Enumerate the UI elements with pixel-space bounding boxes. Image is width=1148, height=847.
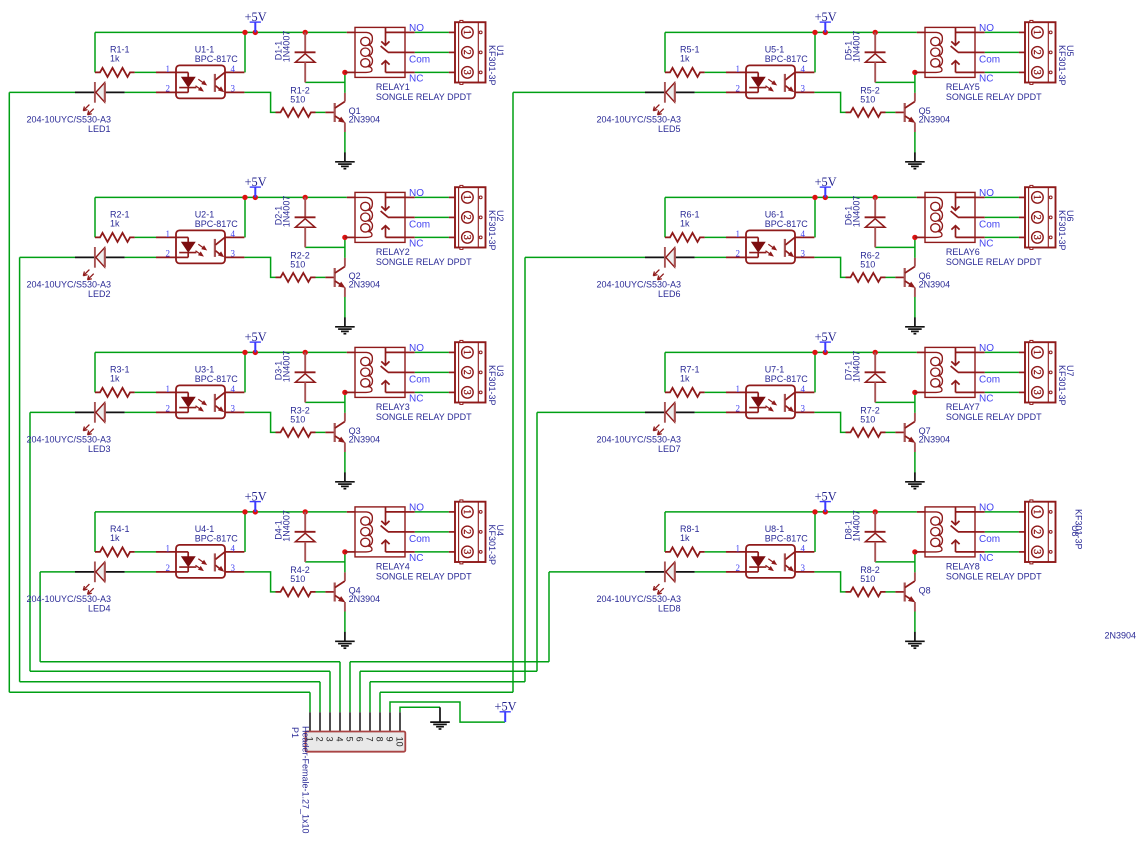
svg-text:LED6: LED6 [658,289,681,299]
svg-text:2N3904: 2N3904 [349,435,381,445]
diode D7-1 1N4007 [843,351,885,403]
wire RELAY7 NO to terminal pin 1 [985,351,1019,353]
wire LED7 cathode to header P1 pin 2 [360,412,645,712]
svg-text:2: 2 [1031,529,1042,534]
wire RELAY2 NC to terminal pin 3 [415,236,449,238]
svg-text:KF301-3P: KF301-3P [487,525,497,566]
wire RELAY6 NO to terminal pin 1 [985,196,1019,198]
connector U2 KF301-3P terminal block [449,185,505,250]
wire D6-1 anode to Q6 collector and relay coil [875,237,915,258]
svg-text:LED4: LED4 [88,603,111,613]
wire U1-1 pin 3 to R1-2 [244,92,275,112]
connector P1 Header-Female-1.27_1x10 [290,712,405,833]
svg-text:3: 3 [1031,390,1042,395]
wire +5V rail row 4 [95,512,347,552]
power +5V row 3 [245,330,267,352]
svg-text:1: 1 [736,229,741,239]
relay RELAY2 SONGLE DPDT [345,188,472,267]
wire Q6 emitter to ground [914,297,916,318]
svg-text:1: 1 [736,384,741,394]
svg-text:+5V: +5V [815,330,837,344]
wire U3-1 pin 4 to +5V rail [244,352,246,392]
svg-text:510: 510 [860,414,875,424]
wire R2-1 to U2-1 pin 1 [135,236,156,238]
svg-text:KF301-3P: KF301-3P [1057,45,1067,86]
svg-text:NC: NC [409,394,423,405]
svg-text:2: 2 [461,50,472,55]
wire D2-1 anode to Q2 collector and relay coil [305,237,345,258]
relay RELAY4 SONGLE DPDT [345,503,472,582]
svg-text:204-10UYC/S530-A3: 204-10UYC/S530-A3 [596,434,681,444]
wire +5V rail row 6 [665,197,917,237]
wire Q5 emitter to ground [914,132,916,153]
node relay coil / collector junction row 3 [342,390,347,395]
wire U6-1 pin 3 to R6-2 [814,257,845,277]
svg-text:KF301-3P: KF301-3P [487,210,497,251]
op-amp U8-1 optocoupler BPC-817C [726,524,814,578]
svg-text:5: 5 [344,737,354,742]
node +5V junction A row 6 [812,195,817,200]
svg-text:1k: 1k [110,53,120,63]
svg-text:+5V: +5V [245,10,267,24]
wire R7-2 to Q7 base [886,431,896,433]
svg-text:1N4007: 1N4007 [852,510,862,542]
svg-text:1k: 1k [680,218,690,228]
resistor R3-2 [276,405,316,437]
svg-text:4: 4 [334,737,344,742]
svg-text:2: 2 [461,215,472,220]
relay RELAY1 SONGLE DPDT [345,23,472,102]
wire LED2 to U2-1 pin 2 [125,256,156,258]
svg-text:2: 2 [166,84,171,94]
svg-text:1k: 1k [110,218,120,228]
wire U2-1 pin 3 to R2-2 [244,257,275,277]
svg-text:1: 1 [736,64,741,74]
svg-text:1: 1 [1031,30,1042,35]
wire RELAY3 NC to terminal pin 3 [415,391,449,393]
svg-text:RELAY8: RELAY8 [946,562,980,572]
svg-text:LED5: LED5 [658,124,681,134]
wire RELAY4 NO to terminal pin 1 [415,511,449,513]
transistor Q6 2N3904 [895,258,950,297]
wire RELAY7 NC to terminal pin 3 [985,391,1019,393]
connector U8 KF301-3P terminal block [1019,500,1084,564]
wire LED8 cathode to header P1 pin 1 [350,572,645,712]
svg-text:2: 2 [461,529,472,534]
wire R2-2 to Q2 base [316,276,326,278]
LED2 204-10UYC/S530-A3 [26,247,124,299]
svg-text:1: 1 [461,195,472,200]
diode D8-1 1N4007 [843,510,885,562]
svg-text:BPC-817C: BPC-817C [765,374,809,384]
node relay coil / collector junction row 5 [912,70,917,75]
wire LED7 to U7-1 pin 2 [695,411,726,413]
wire LED5 to U5-1 pin 2 [695,91,726,93]
power +5V header [495,700,517,722]
svg-text:LED2: LED2 [88,289,111,299]
node D4-1 cathode junction [303,509,308,514]
svg-text:Com: Com [409,534,430,545]
svg-text:NC: NC [979,553,993,564]
wire R1-1 to U1-1 pin 1 [135,71,156,73]
svg-text:Com: Com [409,375,430,386]
LED1 204-10UYC/S530-A3 [26,82,124,134]
svg-text:3: 3 [231,404,236,414]
svg-text:+5V: +5V [495,700,517,714]
ground header [430,707,450,729]
wire U3-1 pin 3 to R3-2 [244,412,275,432]
wire D1-1 anode to Q1 collector and relay coil [305,72,345,93]
diode D1-1 1N4007 [273,31,315,83]
node D2-1 cathode junction [303,195,308,200]
svg-text:4: 4 [801,544,806,554]
transistor Q8 2N3904 [895,572,930,611]
svg-text:4: 4 [231,384,236,394]
svg-text:510: 510 [860,259,875,269]
wire RELAY7 Com to terminal pin 2 [985,371,1019,373]
svg-text:3: 3 [231,84,236,94]
node relay coil / collector junction row 2 [342,235,347,240]
svg-text:+5V: +5V [815,10,837,24]
svg-text:510: 510 [290,574,305,584]
power +5V row 2 [245,175,267,197]
wire +5V rail row 8 [665,512,917,552]
svg-text:KF301-3P: KF301-3P [487,45,497,86]
wire RELAY1 NC to terminal pin 3 [415,71,449,73]
connector U3 KF301-3P terminal block [449,340,505,405]
node D8-1 cathode junction [873,509,878,514]
svg-text:204-10UYC/S530-A3: 204-10UYC/S530-A3 [596,279,681,289]
svg-text:1: 1 [166,384,171,394]
svg-text:2: 2 [1031,215,1042,220]
wire R6-1 to U6-1 pin 1 [705,236,726,238]
wire U1-1 pin 4 to +5V rail [244,32,246,72]
resistor R5-2 [846,85,886,117]
svg-text:RELAY6: RELAY6 [946,247,980,257]
svg-text:RELAY1: RELAY1 [376,82,410,92]
svg-text:1N4007: 1N4007 [852,196,862,228]
svg-text:Com: Com [979,534,1000,545]
transistor Q2 2N3904 [325,258,380,297]
svg-text:2: 2 [736,84,741,94]
wire R8-2 to Q8 base [886,591,896,593]
node +5V junction A row 5 [812,30,817,35]
relay RELAY5 SONGLE DPDT [915,23,1042,102]
svg-text:3: 3 [461,549,472,554]
node relay coil / collector junction row 6 [912,235,917,240]
relay RELAY3 SONGLE DPDT [345,343,472,422]
wire R4-1 to U4-1 pin 1 [135,551,156,553]
wire LED8 to U8-1 pin 2 [695,571,726,573]
wire header pin 10 to ground [400,707,440,712]
svg-text:2N3904: 2N3904 [919,115,951,125]
LED7 204-10UYC/S530-A3 [596,402,694,454]
svg-text:3: 3 [801,404,806,414]
svg-text:204-10UYC/S530-A3: 204-10UYC/S530-A3 [26,279,111,289]
wire LED3 to U3-1 pin 2 [125,411,156,413]
svg-text:2: 2 [1031,50,1042,55]
svg-text:4: 4 [801,384,806,394]
wire RELAY5 NO to terminal pin 1 [985,31,1019,33]
resistor R2-2 [276,250,316,282]
svg-text:3: 3 [1031,549,1042,554]
wire +5V rail row 5 [665,32,917,72]
svg-text:1k: 1k [680,373,690,383]
svg-text:2: 2 [1031,370,1042,375]
svg-text:KF301-3P: KF301-3P [487,365,497,406]
svg-text:SONGLE RELAY DPDT: SONGLE RELAY DPDT [376,412,472,422]
svg-text:2: 2 [166,249,171,259]
svg-text:1N4007: 1N4007 [852,351,862,383]
svg-text:2: 2 [166,563,171,573]
node +5V junction A row 8 [812,509,817,514]
wire R5-2 to Q5 base [886,111,896,113]
node +5V junction B row 5 [823,30,828,35]
svg-text:NC: NC [409,74,423,85]
resistor R8-2 [846,565,886,597]
ground row 1 [335,152,355,168]
svg-text:RELAY3: RELAY3 [376,402,410,412]
wire RELAY2 Com to terminal pin 2 [415,216,449,218]
svg-text:SONGLE RELAY DPDT: SONGLE RELAY DPDT [946,412,1042,422]
node +5V junction B row 2 [253,195,258,200]
wire LED3 cathode to header P1 pin 3 [30,412,330,712]
svg-text:NC: NC [979,394,993,405]
svg-text:BPC-817C: BPC-817C [195,219,239,229]
wire RELAY8 Com to terminal pin 2 [985,531,1019,533]
transistor Q7 2N3904 [895,413,950,452]
op-amp U5-1 optocoupler BPC-817C [726,45,814,99]
op-amp U2-1 optocoupler BPC-817C [156,210,244,264]
LED6 204-10UYC/S530-A3 [596,247,694,299]
wire U4-1 pin 4 to +5V rail [244,512,246,552]
svg-text:NC: NC [979,239,993,250]
svg-text:2N3904: 2N3904 [1105,631,1137,641]
svg-text:2N3904: 2N3904 [349,280,381,290]
svg-text:510: 510 [860,574,875,584]
svg-text:SONGLE RELAY DPDT: SONGLE RELAY DPDT [376,92,472,102]
svg-text:1: 1 [1031,195,1042,200]
svg-text:6: 6 [354,737,364,742]
ground row 4 [335,632,355,648]
relay RELAY6 SONGLE DPDT [915,188,1042,267]
transistor Q4 2N3904 [325,572,380,611]
ground row 8 [905,632,925,648]
wire U6-1 pin 4 to +5V rail [814,197,816,237]
svg-text:BPC-817C: BPC-817C [195,534,239,544]
wire RELAY5 NC to terminal pin 3 [985,71,1019,73]
wire RELAY3 Com to terminal pin 2 [415,371,449,373]
svg-text:3: 3 [231,249,236,259]
wire R6-2 to Q6 base [886,276,896,278]
node +5V junction B row 1 [253,30,258,35]
resistor R3-1 [95,365,135,397]
svg-text:+5V: +5V [245,330,267,344]
svg-text:2N3904: 2N3904 [349,115,381,125]
wire RELAY4 Com to terminal pin 2 [415,531,449,533]
wire RELAY6 NC to terminal pin 3 [985,236,1019,238]
svg-text:NC: NC [409,239,423,250]
svg-text:1k: 1k [110,373,120,383]
svg-text:RELAY2: RELAY2 [376,247,410,257]
svg-text:LED3: LED3 [88,444,111,454]
svg-text:1k: 1k [680,533,690,543]
svg-text:Com: Com [979,55,1000,66]
svg-text:P1: P1 [290,727,300,738]
node D6-1 cathode junction [873,195,878,200]
node D5-1 cathode junction [873,30,878,35]
svg-text:LED7: LED7 [658,444,681,454]
svg-text:NO: NO [409,503,424,514]
svg-text:204-10UYC/S530-A3: 204-10UYC/S530-A3 [596,594,681,604]
power +5V row 7 [815,330,837,352]
wire U4-1 pin 3 to R4-2 [244,572,275,592]
svg-text:3: 3 [324,737,334,742]
node +5V junction A row 7 [812,350,817,355]
node relay coil / collector junction row 7 [912,390,917,395]
svg-text:NO: NO [979,23,994,34]
node D1-1 cathode junction [303,30,308,35]
svg-text:4: 4 [231,544,236,554]
svg-text:2N3904: 2N3904 [349,594,381,604]
svg-text:4: 4 [231,229,236,239]
node +5V junction A row 4 [242,509,247,514]
power +5V row 6 [815,175,837,197]
wire D8-1 anode to Q8 collector and relay coil [875,552,915,573]
wire RELAY4 NC to terminal pin 3 [415,551,449,553]
svg-text:BPC-817C: BPC-817C [195,374,239,384]
wire LED1 to U1-1 pin 2 [125,91,156,93]
op-amp U3-1 optocoupler BPC-817C [156,365,244,419]
resistor R7-2 [846,405,886,437]
svg-text:NC: NC [409,553,423,564]
svg-text:SONGLE RELAY DPDT: SONGLE RELAY DPDT [946,572,1042,582]
svg-text:Com: Com [979,375,1000,386]
wire U7-1 pin 4 to +5V rail [814,352,816,392]
diode D4-1 1N4007 [273,510,315,562]
wire D4-1 anode to Q4 collector and relay coil [305,552,345,573]
diode D2-1 1N4007 [273,196,315,248]
svg-text:1: 1 [461,509,472,514]
wire RELAY3 NO to terminal pin 1 [415,351,449,353]
svg-text:204-10UYC/S530-A3: 204-10UYC/S530-A3 [26,594,111,604]
svg-text:3: 3 [461,390,472,395]
svg-text:NO: NO [979,343,994,354]
svg-text:1N4007: 1N4007 [282,31,292,63]
wire LED2 cathode to header P1 pin 2 [20,257,320,712]
node relay coil / collector junction row 4 [342,549,347,554]
svg-text:1: 1 [461,30,472,35]
svg-text:3: 3 [461,235,472,240]
svg-text:2N3904: 2N3904 [919,435,951,445]
svg-text:+5V: +5V [815,175,837,189]
transistor Q3 2N3904 [325,413,380,452]
power +5V row 1 [245,10,267,32]
wire Q8 emitter to ground [914,612,916,633]
wire LED4 to U4-1 pin 2 [125,571,156,573]
svg-text:510: 510 [860,94,875,104]
wire header pin 9 to +5V [390,702,505,722]
LED5 204-10UYC/S530-A3 [596,82,694,134]
wire U5-1 pin 3 to R5-2 [814,92,845,112]
resistor R4-1 [95,524,135,556]
svg-text:Com: Com [979,220,1000,231]
wire RELAY5 Com to terminal pin 2 [985,51,1019,53]
LED8 204-10UYC/S530-A3 [596,562,694,614]
svg-text:2N3904: 2N3904 [919,280,951,290]
ground row 7 [905,472,925,488]
node +5V junction B row 8 [823,509,828,514]
node +5V junction B row 4 [253,509,258,514]
power +5V row 5 [815,10,837,32]
svg-text:NC: NC [979,74,993,85]
wire RELAY1 Com to terminal pin 2 [415,51,449,53]
wire U8-1 pin 3 to R8-2 [814,572,845,592]
resistor R6-1 [665,210,705,242]
op-amp U7-1 optocoupler BPC-817C [726,365,814,419]
svg-text:4: 4 [801,64,806,74]
svg-text:7: 7 [364,737,374,742]
resistor R1-1 [95,45,135,77]
svg-text:RELAY7: RELAY7 [946,402,980,412]
wire Q3 emitter to ground [344,452,346,473]
wire D5-1 anode to Q5 collector and relay coil [875,72,915,93]
LED4 204-10UYC/S530-A3 [26,562,124,614]
svg-text:Com: Com [409,55,430,66]
wire Q1 emitter to ground [344,132,346,153]
resistor R6-2 [846,250,886,282]
wire R3-1 to U3-1 pin 1 [135,391,156,393]
svg-text:2: 2 [736,563,741,573]
node +5V junction B row 6 [823,195,828,200]
wire D7-1 anode to Q7 collector and relay coil [875,392,915,413]
svg-text:BPC-817C: BPC-817C [765,219,809,229]
node +5V junction A row 1 [242,30,247,35]
svg-text:1: 1 [166,64,171,74]
node relay coil / collector junction row 8 [912,549,917,554]
svg-text:2: 2 [166,404,171,414]
svg-text:NO: NO [409,343,424,354]
svg-text:3: 3 [801,84,806,94]
svg-text:1: 1 [166,544,171,554]
wire RELAY6 Com to terminal pin 2 [985,216,1019,218]
svg-text:BPC-817C: BPC-817C [765,534,809,544]
svg-text:KF301-3P: KF301-3P [1057,210,1067,251]
wire +5V rail row 2 [95,197,347,237]
svg-text:8: 8 [374,737,384,742]
node +5V junction A row 3 [242,350,247,355]
resistor R1-2 [276,85,316,117]
diode D5-1 1N4007 [843,31,885,83]
svg-text:Com: Com [409,220,430,231]
wire U5-1 pin 4 to +5V rail [814,32,816,72]
wire LED5 cathode to header P1 pin 4 [380,92,645,712]
diode D3-1 1N4007 [273,351,315,403]
connector U7 KF301-3P terminal block [1019,340,1075,405]
transistor Q8 value label 2N3904 (displaced) [1105,631,1137,641]
resistor R4-2 [276,565,316,597]
svg-text:BPC-817C: BPC-817C [765,54,809,64]
svg-text:1: 1 [166,229,171,239]
wire U2-1 pin 4 to +5V rail [244,197,246,237]
svg-text:204-10UYC/S530-A3: 204-10UYC/S530-A3 [26,114,111,124]
resistor R5-1 [665,45,705,77]
svg-text:NO: NO [979,188,994,199]
svg-text:SONGLE RELAY DPDT: SONGLE RELAY DPDT [376,257,472,267]
svg-text:Q8: Q8 [919,586,931,596]
wire RELAY8 NC to terminal pin 3 [985,551,1019,553]
LED3 204-10UYC/S530-A3 [26,402,124,454]
